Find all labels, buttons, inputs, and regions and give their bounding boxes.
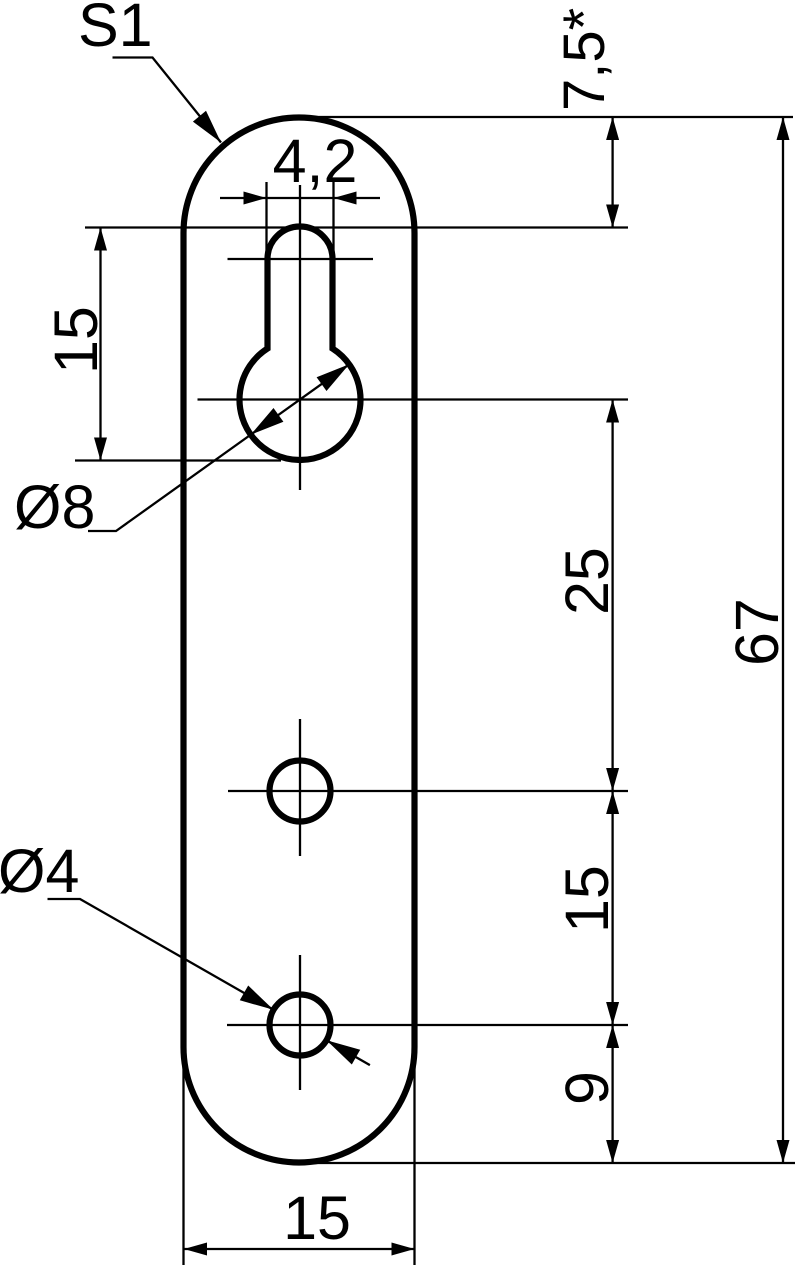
svg-text:4,2: 4,2 bbox=[273, 127, 358, 195]
svg-text:S1: S1 bbox=[78, 0, 153, 59]
svg-text:7,5*: 7,5* bbox=[552, 8, 617, 111]
svg-text:Ø4: Ø4 bbox=[0, 837, 79, 905]
svg-text:15: 15 bbox=[42, 306, 110, 374]
svg-text:15: 15 bbox=[283, 1184, 351, 1252]
svg-text:15: 15 bbox=[553, 865, 621, 933]
svg-text:67: 67 bbox=[723, 598, 791, 666]
svg-text:9: 9 bbox=[553, 1071, 621, 1105]
svg-text:25: 25 bbox=[553, 547, 621, 615]
svg-text:Ø8: Ø8 bbox=[14, 473, 95, 541]
